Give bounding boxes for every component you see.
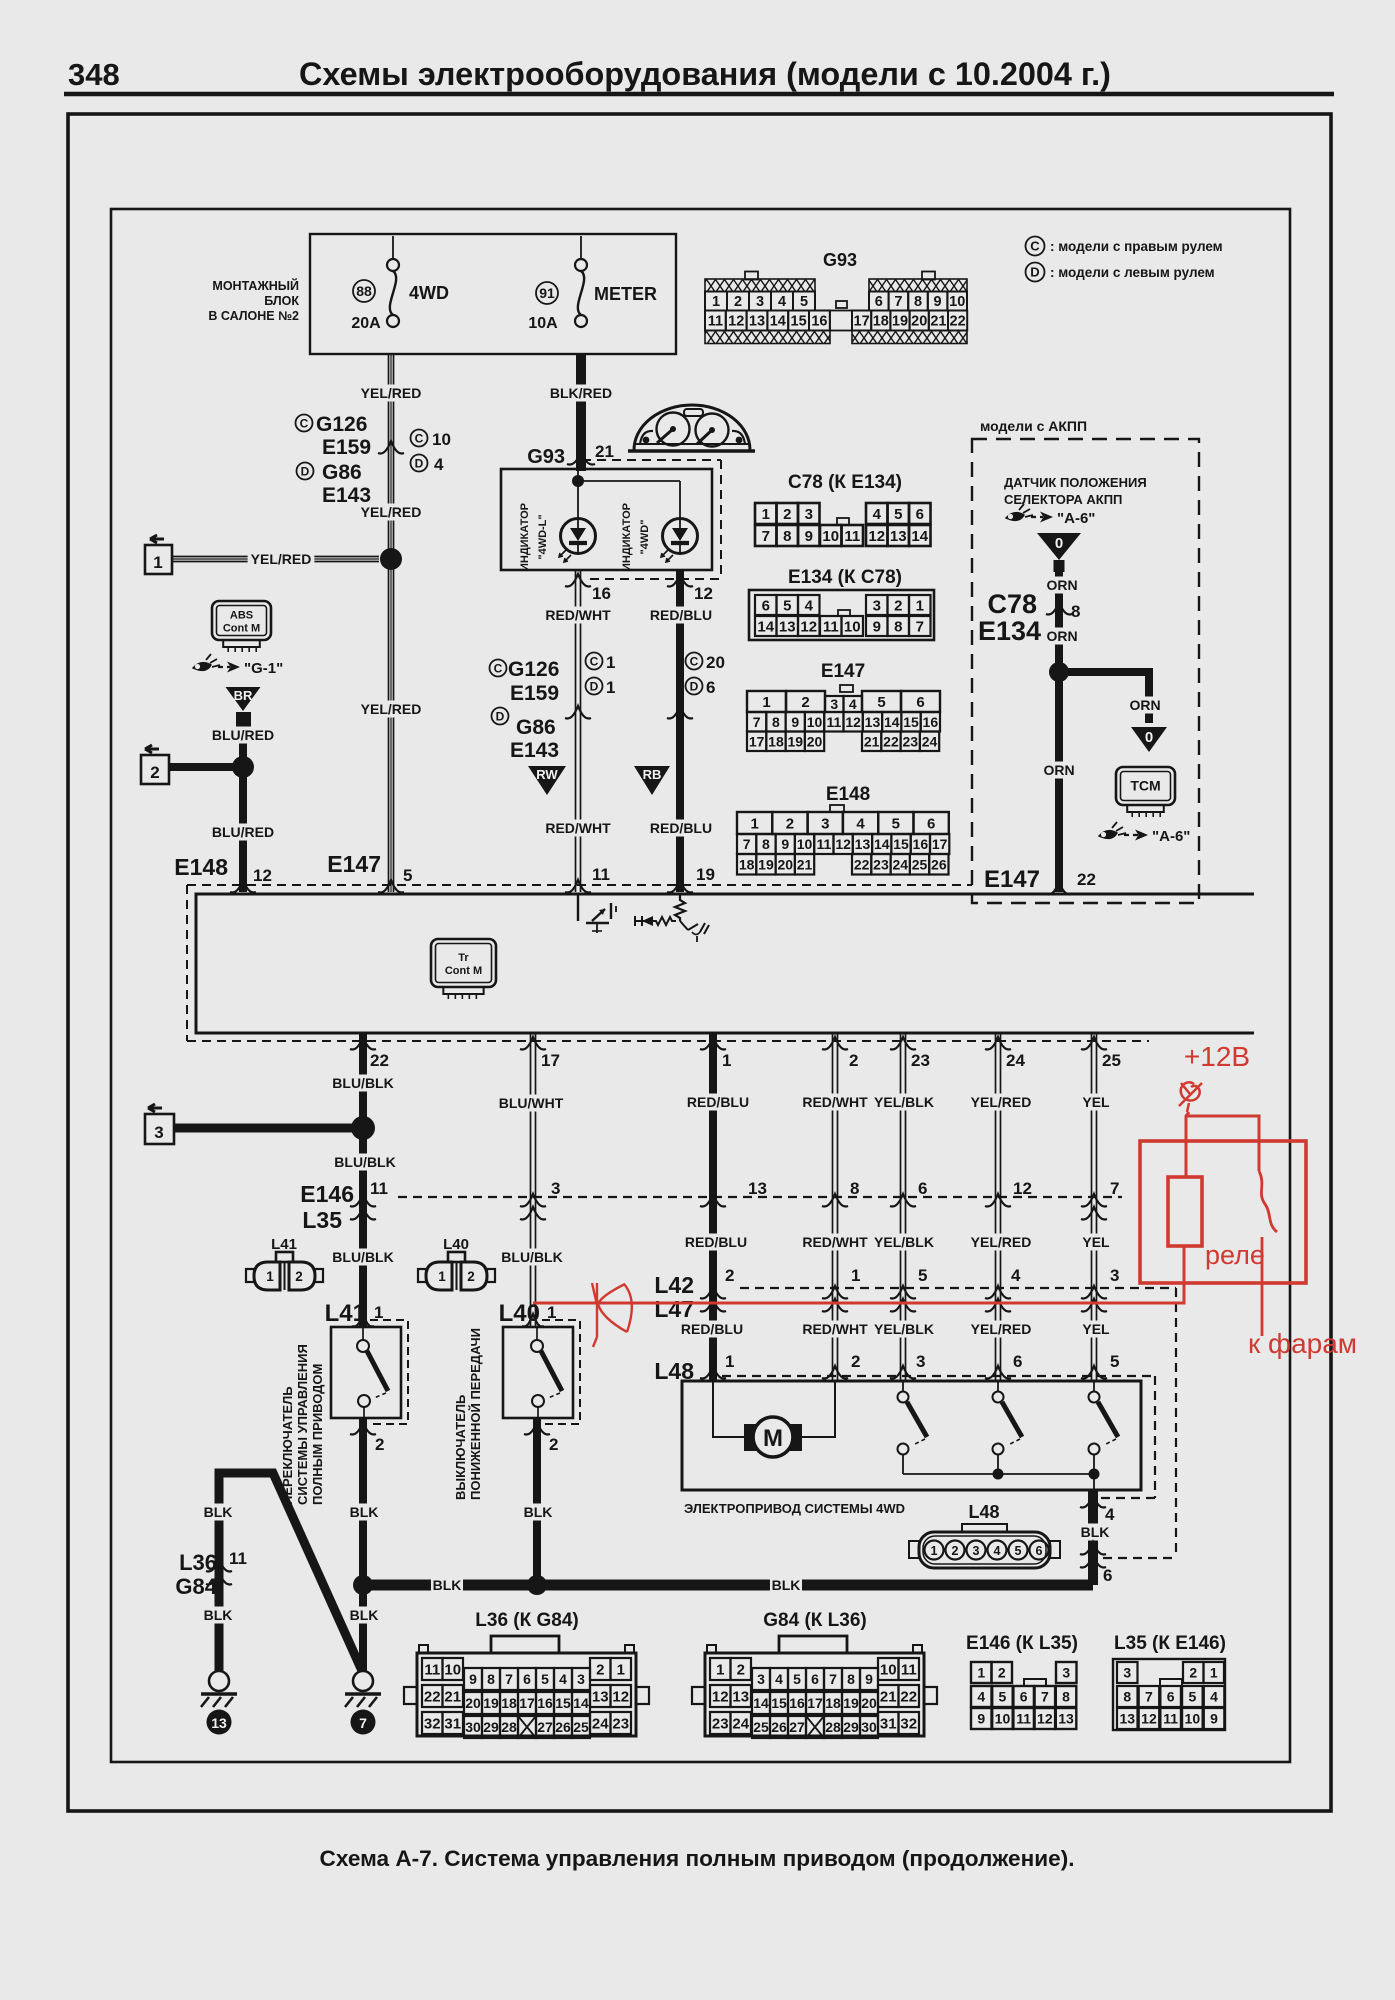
svg-text:9: 9 xyxy=(791,714,799,730)
svg-text:4: 4 xyxy=(775,1671,783,1687)
red bowtie mark on wire xyxy=(592,1283,632,1347)
svg-text:13: 13 xyxy=(855,836,871,852)
svg-text:Е148: Е148 xyxy=(826,784,870,805)
svg-text:25: 25 xyxy=(753,1719,769,1735)
svg-text:2: 2 xyxy=(725,1266,734,1285)
svg-text:2: 2 xyxy=(952,1544,959,1558)
svg-text:15: 15 xyxy=(771,1695,787,1711)
svg-text:14: 14 xyxy=(757,618,774,635)
ground 7 xyxy=(353,1671,373,1691)
svg-text:3: 3 xyxy=(756,294,764,310)
off-page connector 2 xyxy=(145,745,159,753)
svg-text:Tr: Tr xyxy=(458,952,469,964)
svg-text:4: 4 xyxy=(873,506,882,523)
svg-text:1: 1 xyxy=(916,597,924,614)
svg-text:BLK/RED: BLK/RED xyxy=(550,385,612,401)
svg-text:6: 6 xyxy=(916,694,924,711)
svg-text:3: 3 xyxy=(821,815,829,832)
svg-text:5: 5 xyxy=(999,1689,1007,1705)
wire RED/WHT from indicator pin 16 xyxy=(575,570,577,892)
transistor circuit at pin 19 xyxy=(675,894,685,921)
svg-text:BR: BR xyxy=(234,688,253,703)
svg-text:8: 8 xyxy=(894,618,902,635)
svg-text:17: 17 xyxy=(932,836,948,852)
svg-text:3: 3 xyxy=(916,1352,925,1371)
svg-text:8: 8 xyxy=(847,1671,855,1687)
svg-text:3: 3 xyxy=(1110,1266,1119,1285)
svg-text:к фарам: к фарам xyxy=(1248,1328,1357,1359)
module pin 1 wire RED/BLU xyxy=(709,1033,717,1381)
indicator 4WD-L lamp xyxy=(561,519,596,554)
svg-text:7: 7 xyxy=(762,528,770,545)
svg-text:10A: 10A xyxy=(528,315,558,332)
svg-text:22: 22 xyxy=(883,733,899,749)
svg-text:6: 6 xyxy=(927,815,935,832)
svg-text:21: 21 xyxy=(595,442,614,461)
svg-text:G93: G93 xyxy=(527,446,565,468)
svg-text:G93: G93 xyxy=(823,250,857,270)
off-page connector 3 xyxy=(148,1104,162,1112)
svg-text:5: 5 xyxy=(877,694,885,711)
svg-text:L41: L41 xyxy=(271,1236,297,1253)
svg-text:21: 21 xyxy=(864,733,880,749)
svg-text:1: 1 xyxy=(725,1352,734,1371)
svg-text:14: 14 xyxy=(884,714,900,730)
wire code triangle RB xyxy=(634,766,670,795)
svg-text:6: 6 xyxy=(918,1179,927,1198)
svg-text:YEL: YEL xyxy=(1082,1094,1110,1110)
svg-text:9: 9 xyxy=(805,528,813,545)
svg-text:Схема А-7. Система управления: Схема А-7. Система управления полным при… xyxy=(320,1846,1075,1871)
svg-text:2: 2 xyxy=(737,1661,745,1678)
svg-text:L35 (К Е146): L35 (К Е146) xyxy=(1114,1633,1226,1654)
svg-text:12: 12 xyxy=(868,528,885,545)
svg-text:4: 4 xyxy=(778,294,786,310)
svg-text:RED/BLU: RED/BLU xyxy=(687,1094,749,1110)
transistor symbol at pin 11 xyxy=(578,894,609,923)
red relay contact squiggle xyxy=(1259,1171,1277,1336)
off-page connector 1 xyxy=(150,535,164,543)
svg-text:9: 9 xyxy=(1210,1711,1218,1727)
svg-text:12: 12 xyxy=(612,1688,629,1705)
svg-text:2: 2 xyxy=(786,815,794,832)
svg-text:"А-6": "А-6" xyxy=(1057,510,1095,527)
svg-text:6: 6 xyxy=(1103,1566,1112,1585)
svg-text:20: 20 xyxy=(861,1695,877,1711)
svg-text:8: 8 xyxy=(487,1671,495,1687)
svg-text:YEL: YEL xyxy=(1082,1321,1110,1337)
module pin 2 wire RED/WHT xyxy=(832,1033,834,1381)
svg-text:20: 20 xyxy=(807,733,823,749)
svg-text:20A: 20A xyxy=(351,315,381,332)
svg-text:20: 20 xyxy=(777,856,793,872)
svg-text:29: 29 xyxy=(843,1719,859,1735)
svg-text:YEL/RED: YEL/RED xyxy=(971,1321,1032,1337)
module pin 23 wire YEL/BLK xyxy=(900,1033,902,1381)
svg-text:BLK: BLK xyxy=(350,1607,379,1623)
svg-text:7: 7 xyxy=(505,1671,513,1687)
svg-text:14: 14 xyxy=(911,528,928,545)
svg-text:14: 14 xyxy=(573,1695,589,1711)
svg-text:5: 5 xyxy=(918,1266,927,1285)
svg-text:8: 8 xyxy=(783,528,791,545)
svg-text:7: 7 xyxy=(829,1671,837,1687)
svg-text:5: 5 xyxy=(793,1671,801,1687)
svg-text:БЛОК: БЛОК xyxy=(264,294,299,308)
module ABS Cont M xyxy=(212,601,271,640)
svg-text:2: 2 xyxy=(596,1661,604,1678)
svg-text:YEL/RED: YEL/RED xyxy=(361,504,422,520)
svg-text:ORN: ORN xyxy=(1129,697,1160,713)
svg-text:11: 11 xyxy=(823,618,839,635)
svg-text:11: 11 xyxy=(1163,1711,1178,1727)
header underline xyxy=(64,92,1334,97)
svg-text:YEL/RED: YEL/RED xyxy=(361,701,422,717)
svg-text:13: 13 xyxy=(211,1715,227,1731)
svg-text:5: 5 xyxy=(783,597,791,614)
wire YEL/RED down to E147 pin 5 xyxy=(388,565,390,892)
svg-text:9: 9 xyxy=(865,1671,873,1687)
svg-text:22: 22 xyxy=(1077,870,1096,889)
svg-text:25: 25 xyxy=(912,856,928,872)
svg-text:D: D xyxy=(690,679,699,693)
svg-text:24: 24 xyxy=(1006,1051,1025,1070)
svg-text:2: 2 xyxy=(801,694,809,711)
svg-text:"G-1": "G-1" xyxy=(244,660,283,677)
svg-text:19: 19 xyxy=(787,733,803,749)
svg-text:2: 2 xyxy=(375,1435,384,1454)
outer border frame xyxy=(68,114,1331,1811)
dashed line connectors L42 L47 xyxy=(740,1287,1176,1289)
svg-text:12: 12 xyxy=(253,866,272,885)
svg-text:4: 4 xyxy=(1105,1505,1115,1524)
svg-text:12: 12 xyxy=(694,584,713,603)
svg-text:YEL/BLK: YEL/BLK xyxy=(874,1321,934,1337)
svg-text:9: 9 xyxy=(934,294,942,310)
svg-text:18: 18 xyxy=(768,733,784,749)
svg-text:RED/BLU: RED/BLU xyxy=(650,607,712,623)
svg-text:10: 10 xyxy=(797,836,813,852)
svg-text:14: 14 xyxy=(770,314,786,330)
svg-text:31: 31 xyxy=(444,1715,461,1732)
svg-text:BLU/WHT: BLU/WHT xyxy=(499,1095,564,1111)
svg-text:24: 24 xyxy=(892,856,908,872)
svg-text:BLK: BLK xyxy=(204,1504,233,1520)
junction YEL/RED xyxy=(380,548,402,570)
svg-text:1: 1 xyxy=(750,815,758,832)
dashed line connector L48 xyxy=(722,1375,1155,1377)
svg-text:"4WD-L": "4WD-L" xyxy=(537,514,549,559)
wire YEL/RED from fuse 88 xyxy=(388,354,390,553)
combination meter dashed outline xyxy=(582,459,721,461)
svg-text:12: 12 xyxy=(1037,1711,1053,1727)
svg-text:17: 17 xyxy=(854,314,870,330)
svg-text:8: 8 xyxy=(850,1179,859,1198)
svg-text:ИНДИКАТОР: ИНДИКАТОР xyxy=(621,503,633,571)
svg-text:модели с АКПП: модели с АКПП xyxy=(980,418,1087,434)
svg-text:8: 8 xyxy=(762,836,770,852)
actuator switch 3 xyxy=(1093,1381,1095,1392)
svg-text:10: 10 xyxy=(880,1661,897,1678)
svg-text:12: 12 xyxy=(835,836,851,852)
svg-text:ORN: ORN xyxy=(1043,762,1074,778)
svg-text:20: 20 xyxy=(911,314,927,330)
legend D left-hand-drive models xyxy=(1026,263,1045,282)
svg-text:5: 5 xyxy=(1188,1689,1196,1705)
svg-text:С78: С78 xyxy=(987,589,1037,619)
svg-text:26: 26 xyxy=(771,1719,787,1735)
svg-text:13: 13 xyxy=(1119,1711,1135,1727)
svg-text:16: 16 xyxy=(923,714,939,730)
svg-text:ИНДИКАТОР: ИНДИКАТОР xyxy=(519,503,531,571)
svg-text:9: 9 xyxy=(977,1711,985,1727)
indicator 4WD lamp xyxy=(663,519,698,554)
svg-text:7: 7 xyxy=(894,294,902,310)
svg-text:3: 3 xyxy=(805,506,813,523)
svg-text:31: 31 xyxy=(880,1715,897,1732)
svg-text:5: 5 xyxy=(541,1671,549,1687)
transfer control module box xyxy=(196,894,1254,1033)
svg-text:21: 21 xyxy=(930,314,946,330)
wire BLK/RED from fuse 91 xyxy=(576,354,586,465)
svg-text:6: 6 xyxy=(1036,1544,1043,1558)
legend C right-hand-drive models xyxy=(1026,237,1045,256)
svg-text:11: 11 xyxy=(826,714,841,730)
svg-text:BLK: BLK xyxy=(350,1504,379,1520)
wire BLK below L40 xyxy=(533,1418,541,1585)
wire code triangle RW xyxy=(528,766,566,795)
svg-text:L36 (К G84): L36 (К G84) xyxy=(475,1610,578,1631)
svg-text:4: 4 xyxy=(1210,1689,1218,1705)
svg-text:6: 6 xyxy=(523,1671,531,1687)
connector marks C G126 E159 / D G86 E143 on meter wires xyxy=(490,660,507,677)
svg-text:G86: G86 xyxy=(322,461,362,484)
svg-text:G86: G86 xyxy=(516,716,556,739)
svg-text:1: 1 xyxy=(266,1269,274,1284)
svg-text:19: 19 xyxy=(696,865,715,884)
svg-text:G84 (К L36): G84 (К L36) xyxy=(763,1610,866,1631)
red relay coil xyxy=(1168,1177,1202,1246)
svg-text:0: 0 xyxy=(1145,729,1153,746)
svg-text:Е134: Е134 xyxy=(978,616,1041,646)
svg-text:18: 18 xyxy=(873,314,889,330)
svg-text:28: 28 xyxy=(501,1719,517,1735)
wire from connector 3 xyxy=(174,1124,363,1133)
red relay box xyxy=(1140,1141,1306,1283)
svg-text:8: 8 xyxy=(1123,1689,1131,1705)
svg-text:4: 4 xyxy=(994,1544,1001,1558)
transfer control module dashed outline xyxy=(187,884,972,886)
svg-text:29: 29 xyxy=(483,1719,499,1735)
reference eye to A-6 xyxy=(1006,513,1024,521)
ground wire left with L36 G84 pin 11 xyxy=(219,1473,363,1681)
svg-text:3: 3 xyxy=(1123,1665,1131,1681)
connector marks C G126 E159 / D G86 E143 on YEL/RED wire xyxy=(296,415,313,432)
svg-text:10: 10 xyxy=(444,1661,461,1678)
svg-text:YEL/BLK: YEL/BLK xyxy=(874,1094,934,1110)
svg-text:2: 2 xyxy=(734,294,742,310)
svg-text:11: 11 xyxy=(844,528,860,545)
svg-text:3: 3 xyxy=(973,1544,980,1558)
svg-text:D: D xyxy=(1030,265,1039,280)
svg-text:10: 10 xyxy=(1185,1711,1201,1727)
svg-text:21: 21 xyxy=(797,856,813,872)
svg-text:1: 1 xyxy=(606,653,615,672)
svg-text:1: 1 xyxy=(153,553,162,572)
svg-text:21: 21 xyxy=(444,1688,461,1705)
svg-text:BLK: BLK xyxy=(772,1577,801,1593)
svg-text:23: 23 xyxy=(911,1051,930,1070)
svg-text:10: 10 xyxy=(844,618,861,635)
wire YEL/RED horizontal from connector 1 xyxy=(172,556,379,558)
fuse 91 METER 10A xyxy=(580,236,582,259)
svg-text:27: 27 xyxy=(789,1719,805,1735)
svg-text:: модели с правым рулем: : модели с правым рулем xyxy=(1050,239,1223,254)
svg-text:19: 19 xyxy=(758,856,774,872)
svg-text:14: 14 xyxy=(753,1695,769,1711)
svg-text:2: 2 xyxy=(851,1352,860,1371)
svg-text:C: C xyxy=(300,416,309,430)
svg-text:14: 14 xyxy=(874,836,890,852)
junction ORN branch xyxy=(1049,662,1069,682)
svg-text:23: 23 xyxy=(712,1715,729,1732)
svg-text:12: 12 xyxy=(800,618,817,635)
svg-text:7: 7 xyxy=(743,836,751,852)
svg-text:4: 4 xyxy=(559,1671,567,1687)
svg-text:16: 16 xyxy=(789,1695,805,1711)
svg-text:19: 19 xyxy=(892,314,908,330)
svg-text:28: 28 xyxy=(825,1719,841,1735)
svg-text:3: 3 xyxy=(757,1671,765,1687)
svg-text:11: 11 xyxy=(901,1661,917,1678)
svg-text:12: 12 xyxy=(728,314,744,330)
svg-text:"4WD": "4WD" xyxy=(639,520,651,555)
wire ORN down xyxy=(1055,572,1063,892)
svg-text:15: 15 xyxy=(555,1695,571,1711)
svg-text:ЭЛЕКТРОПРИВОД СИСТЕМЫ 4WD: ЭЛЕКТРОПРИВОД СИСТЕМЫ 4WD xyxy=(684,1501,905,1516)
svg-text:12: 12 xyxy=(712,1688,729,1705)
svg-text:22: 22 xyxy=(370,1051,389,1070)
svg-text:22: 22 xyxy=(900,1688,917,1705)
svg-text:C: C xyxy=(1030,239,1040,254)
svg-text:1: 1 xyxy=(722,1051,731,1070)
svg-text:16: 16 xyxy=(913,836,929,852)
svg-text:9: 9 xyxy=(873,618,881,635)
wire RED/BLU from indicator pin 12 xyxy=(676,570,684,892)
svg-text:L40: L40 xyxy=(443,1236,469,1253)
svg-text:Cont M: Cont M xyxy=(223,623,260,635)
motor M xyxy=(713,1381,744,1437)
svg-text:Е146 (К L35): Е146 (К L35) xyxy=(966,1633,1078,1654)
svg-text:ПОНИЖЕННОЙ ПЕРЕДАЧИ: ПОНИЖЕННОЙ ПЕРЕДАЧИ xyxy=(468,1328,483,1500)
svg-text:18: 18 xyxy=(825,1695,841,1711)
svg-text:13: 13 xyxy=(1058,1711,1074,1727)
svg-text:17: 17 xyxy=(807,1695,823,1711)
svg-text:RED/WHT: RED/WHT xyxy=(545,820,611,836)
svg-text:C: C xyxy=(415,431,424,445)
reference eye to A-6 near TCM xyxy=(1099,831,1117,839)
svg-text:7: 7 xyxy=(753,714,761,730)
svg-text:ВЫКЛЮЧАТЕЛЬ: ВЫКЛЮЧАТЕЛЬ xyxy=(453,1395,468,1500)
svg-text:2: 2 xyxy=(894,597,902,614)
svg-text:22: 22 xyxy=(950,314,966,330)
svg-text:348: 348 xyxy=(68,57,120,92)
svg-text:30: 30 xyxy=(465,1719,481,1735)
svg-text:1: 1 xyxy=(762,506,770,523)
svg-text:32: 32 xyxy=(900,1715,917,1732)
svg-text:4: 4 xyxy=(977,1689,985,1705)
svg-text:25: 25 xyxy=(573,1719,589,1735)
svg-text:3: 3 xyxy=(551,1179,560,1198)
svg-text:4: 4 xyxy=(434,455,444,474)
svg-text:30: 30 xyxy=(861,1719,877,1735)
indicator lamps box xyxy=(501,469,712,570)
svg-text:МОНТАЖНЫЙ: МОНТАЖНЫЙ xyxy=(212,278,299,293)
svg-text:: модели с левым рулем: : модели с левым рулем xyxy=(1050,265,1215,280)
svg-text:RED/WHT: RED/WHT xyxy=(802,1234,868,1250)
svg-text:BLK: BLK xyxy=(524,1504,553,1520)
svg-text:88: 88 xyxy=(356,283,372,299)
module pin 22 wire BLU/BLK xyxy=(359,1033,367,1327)
svg-text:BLU/BLK: BLU/BLK xyxy=(501,1249,562,1265)
svg-text:24: 24 xyxy=(592,1715,609,1732)
svg-text:5: 5 xyxy=(403,866,412,885)
svg-text:L48: L48 xyxy=(968,1502,999,1522)
svg-text:1: 1 xyxy=(716,1661,724,1678)
svg-text:RED/WHT: RED/WHT xyxy=(545,607,611,623)
svg-text:10: 10 xyxy=(432,430,451,449)
svg-text:10: 10 xyxy=(822,528,839,545)
module TCM xyxy=(1116,767,1175,805)
svg-text:2: 2 xyxy=(783,506,791,523)
svg-text:RED/WHT: RED/WHT xyxy=(802,1094,868,1110)
svg-text:ORN: ORN xyxy=(1046,628,1077,644)
svg-text:YEL/RED: YEL/RED xyxy=(971,1234,1032,1250)
svg-text:16: 16 xyxy=(811,314,827,330)
svg-text:L47: L47 xyxy=(654,1296,694,1322)
svg-text:1: 1 xyxy=(712,294,720,310)
svg-text:ORN: ORN xyxy=(1046,577,1077,593)
instrument cluster icon xyxy=(634,405,750,450)
svg-text:YEL/RED: YEL/RED xyxy=(361,385,422,401)
svg-text:1: 1 xyxy=(851,1266,860,1285)
svg-text:19: 19 xyxy=(483,1695,499,1711)
svg-text:1: 1 xyxy=(931,1544,938,1558)
svg-text:D: D xyxy=(590,679,599,693)
module pin 24 wire YEL/RED xyxy=(995,1033,997,1381)
svg-text:BLU/RED: BLU/RED xyxy=(212,727,274,743)
svg-text:1: 1 xyxy=(606,678,615,697)
svg-text:91: 91 xyxy=(539,285,555,301)
svg-text:D: D xyxy=(496,709,505,723)
svg-text:24: 24 xyxy=(732,1715,749,1732)
svg-text:10: 10 xyxy=(949,294,965,310)
fuse 88 4WD 20A xyxy=(392,236,394,259)
svg-text:ПОЛНЫМ ПРИВОДОМ: ПОЛНЫМ ПРИВОДОМ xyxy=(310,1364,325,1505)
svg-text:BLK: BLK xyxy=(204,1607,233,1623)
svg-text:7: 7 xyxy=(1145,1689,1153,1705)
svg-text:24: 24 xyxy=(922,733,938,749)
svg-text:2: 2 xyxy=(1189,1665,1197,1681)
reference eye to G-1 xyxy=(193,663,211,671)
svg-text:12: 12 xyxy=(845,714,861,730)
svg-text:Е147: Е147 xyxy=(821,661,865,682)
actuator internal bus xyxy=(903,1473,1094,1475)
svg-text:YEL/RED: YEL/RED xyxy=(971,1094,1032,1110)
svg-text:E143: E143 xyxy=(510,739,559,762)
svg-text:E159: E159 xyxy=(322,436,371,459)
svg-text:М: М xyxy=(763,1425,783,1452)
